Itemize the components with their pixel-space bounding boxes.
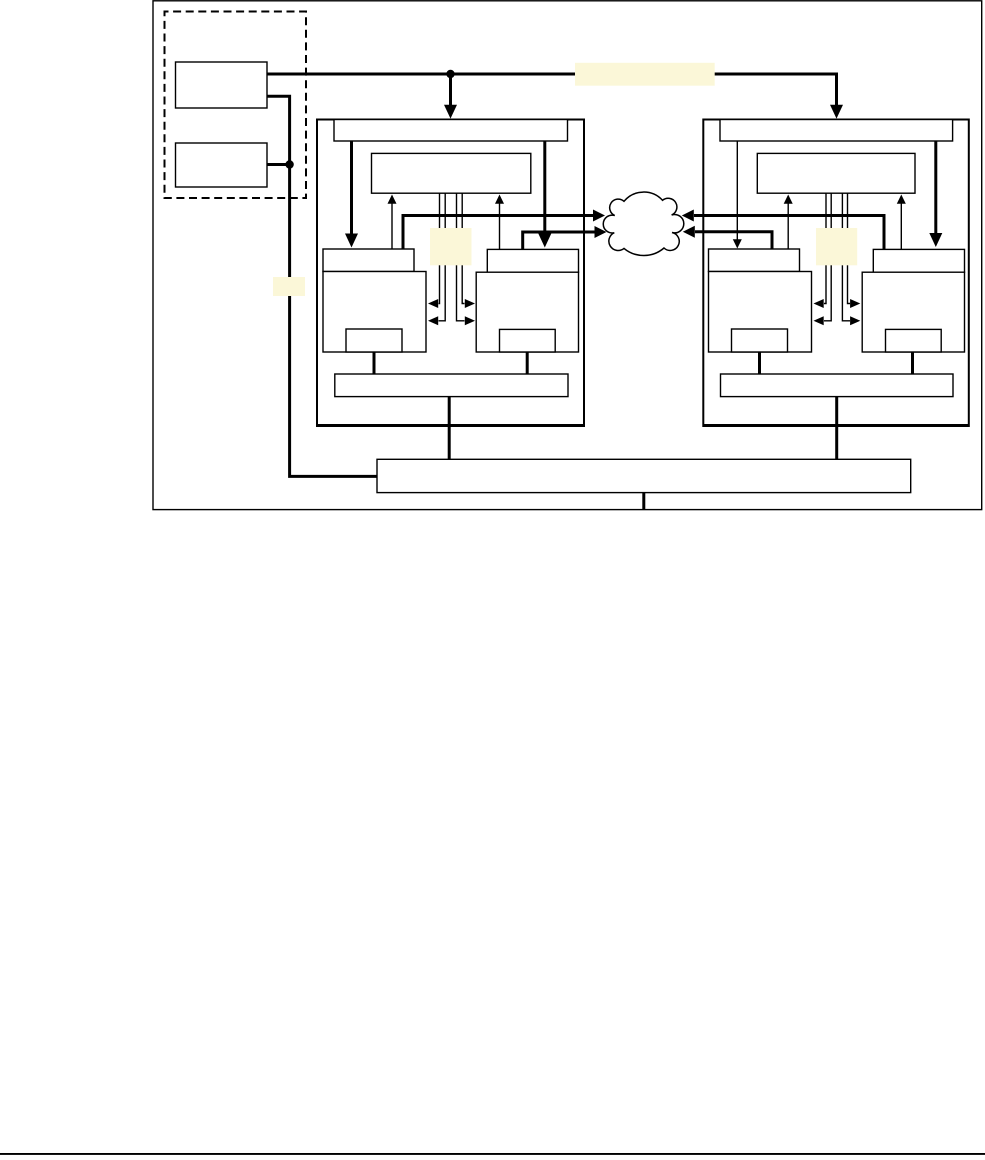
node 2 right sub-box body: [862, 272, 964, 352]
arrow head: [345, 234, 358, 248]
wire: node 1 thick down arrow right: [543, 142, 546, 235]
node 1 left sub-box small box: [346, 329, 402, 352]
node 1 outer box: [317, 120, 584, 427]
node 1 left sub-box body: [323, 272, 426, 353]
wire: node 2 mid line 1: [824, 193, 826, 303]
wire: node 2 thin up arrow left: [787, 203, 789, 250]
arrow head: [465, 299, 475, 308]
highlight: node 2 center label: [816, 228, 857, 265]
wire: node 1 mid line 4: [462, 193, 464, 303]
wire: node 2 thick down arrow right: [934, 142, 937, 234]
wire: node 2 thin up arrow right: [900, 203, 902, 250]
arrow head: [850, 316, 860, 325]
node 2 right sub-box bar: [873, 249, 964, 272]
node: bus junction dot: [446, 70, 454, 78]
arrow head: [428, 316, 438, 325]
highlight: bus label: [575, 63, 715, 86]
arrow head into cloud: [593, 210, 605, 222]
wire: network bus from client box 1 to right node: [267, 74, 837, 105]
wire: node 1 upper network line to cloud: [403, 216, 594, 250]
arrow head: [784, 195, 793, 204]
wire: bus drop to left node: [449, 74, 452, 105]
wire: node 1 lower network line to cloud: [523, 232, 595, 249]
arrow head: [929, 233, 942, 247]
wire: node 1 right sub-box to bottom bar: [526, 352, 529, 374]
node 2 right sub-box small box: [886, 329, 942, 352]
wire: client box 2 to trunk: [267, 163, 290, 166]
arrow head: [465, 316, 475, 325]
wire: node 2 mid line 3: [842, 193, 850, 321]
dashed client group box: [165, 12, 307, 199]
node 1 top bar: [334, 120, 568, 142]
wire: node 2 upper network line to cloud: [694, 216, 884, 250]
wire: node 2 lower network line to cloud: [695, 232, 772, 250]
arrow head: bus into left node top bar: [444, 105, 457, 119]
node 1 right sub-box body: [476, 272, 578, 352]
wire: node 1 mid line 3: [457, 193, 465, 321]
arrow head: [495, 195, 504, 204]
arrow head: [388, 195, 397, 204]
wire: node 2 mid line 2: [824, 193, 831, 321]
wire: node 1 left sub-box to bottom bar: [373, 352, 376, 374]
node 1 left sub-box bar: [323, 249, 414, 272]
arrow head: [850, 299, 860, 308]
arrow head: bus into right node top bar: [830, 105, 843, 119]
node 1 bottom thick edge: [317, 424, 584, 427]
highlight: node 1 center label: [430, 228, 472, 265]
node 1 right sub-box small box: [500, 329, 556, 352]
node 1 right sub-box bar: [487, 249, 578, 272]
arrow head into cloud: [683, 226, 695, 238]
arrow head into cloud: [595, 226, 607, 238]
node 2 outer box: [703, 120, 969, 427]
arrow head: [814, 316, 824, 325]
wire: node 2 left sub-box to bottom bar: [758, 352, 761, 374]
arrow head into cloud: [682, 210, 694, 222]
node 2 inner box: [757, 153, 915, 193]
wire: node 1 thin up arrow left: [391, 203, 393, 249]
arrow head: [814, 299, 824, 308]
wire: shared box bottom stub: [642, 493, 645, 510]
wire: node 2 thin down arrow left: [736, 142, 738, 240]
node 2 left sub-box bar: [709, 249, 800, 272]
node 2 bottom bar: [721, 374, 954, 397]
cloud: network: [603, 192, 684, 255]
node 1 inner box: [372, 153, 531, 193]
node 2 top bar: [720, 120, 953, 142]
node: trunk junction dot: [285, 160, 293, 168]
wire: client box 1 to vertical trunk: [267, 96, 377, 476]
client box 2: [176, 143, 268, 187]
wire: node 1 thick down arrow left: [350, 142, 353, 235]
node 1 bottom bar: [335, 374, 568, 397]
wire: node 2 right sub-box to bottom bar: [911, 352, 914, 374]
footer rule: [0, 1153, 985, 1155]
arrow head: [428, 299, 438, 308]
client box 1: [176, 62, 268, 108]
wire: node 2 to shared box: [835, 397, 838, 460]
node 2 left sub-box body: [709, 272, 812, 353]
arrow head: [733, 239, 742, 248]
wire: node 1 mid line 1: [439, 193, 440, 303]
outer frame: [153, 1, 982, 510]
node 2 left sub-box small box: [732, 329, 788, 352]
wire: node 1 to shared box: [448, 397, 451, 460]
highlight: trunk label: [273, 277, 305, 296]
wire: node 1 mid line 2: [439, 193, 446, 321]
arrow head: [538, 234, 551, 248]
wire: node 2 mid line 4: [848, 193, 851, 303]
arrow head: [897, 195, 906, 204]
node 2 bottom thick edge: [703, 424, 969, 427]
shared disk box: [377, 459, 911, 492]
wire: node 1 thin up arrow right: [499, 203, 501, 249]
